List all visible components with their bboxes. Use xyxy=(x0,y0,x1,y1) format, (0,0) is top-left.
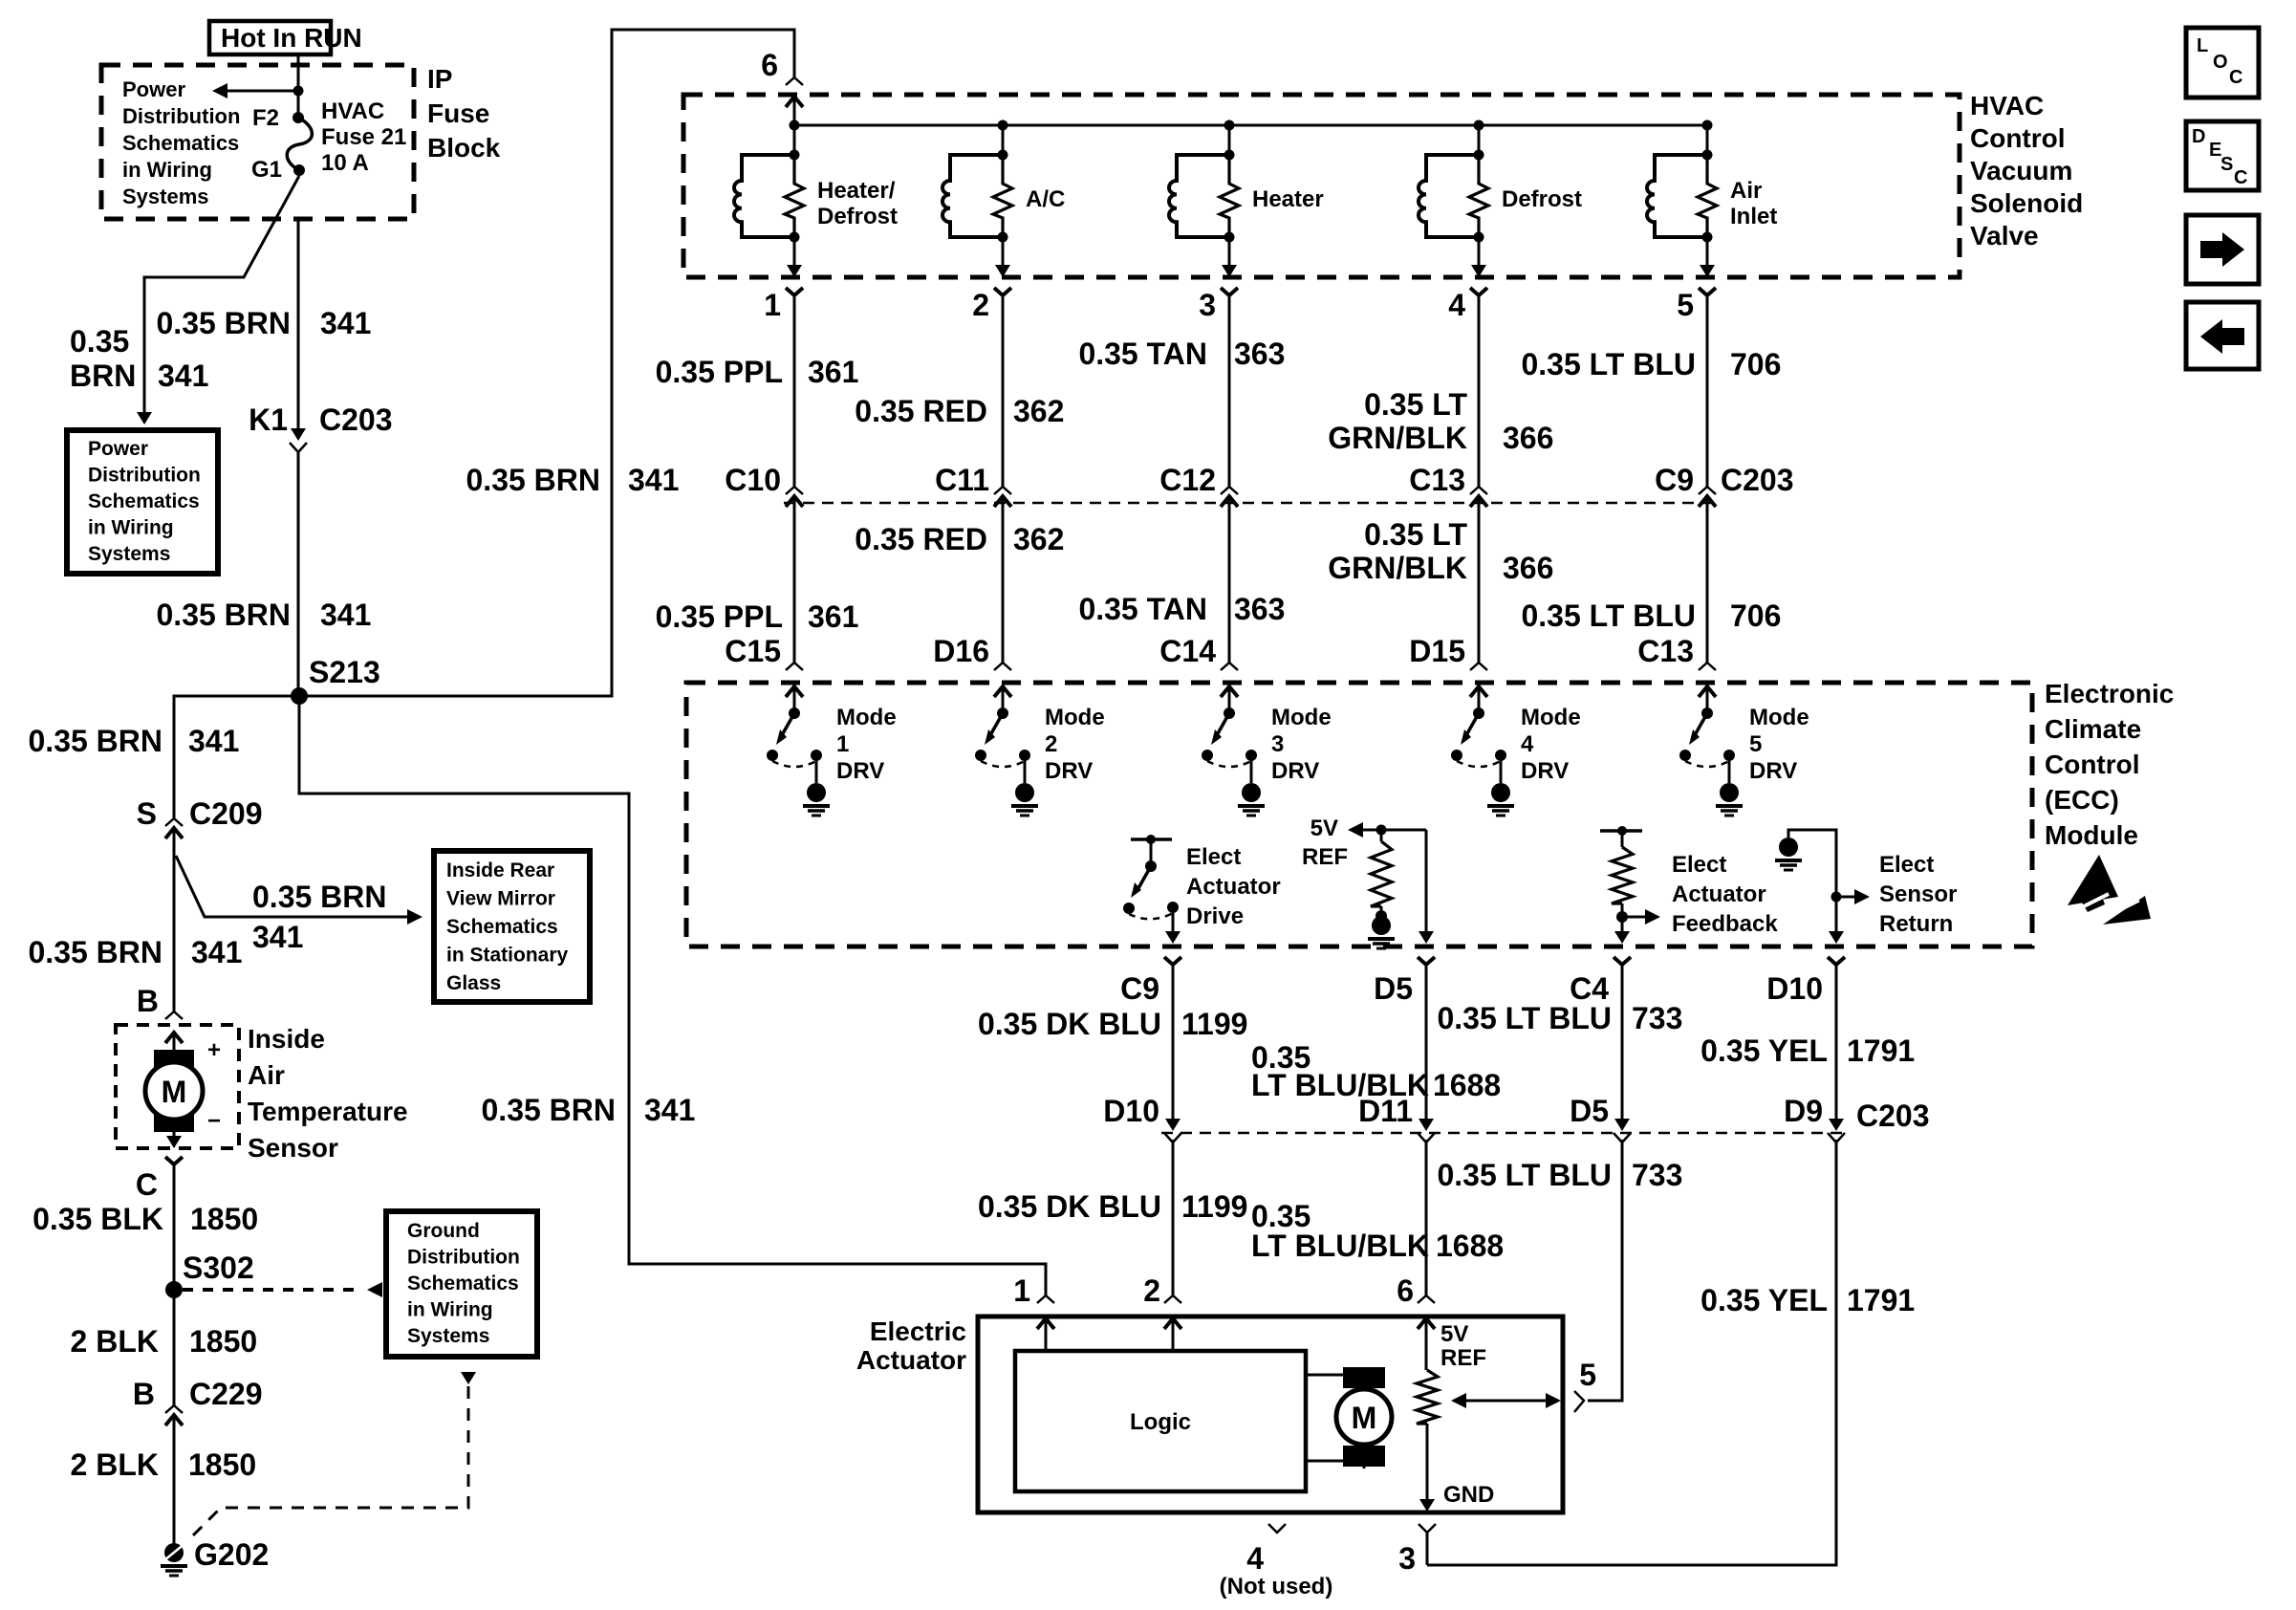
svg-text:733: 733 xyxy=(1632,1001,1682,1035)
svg-text:in Wiring: in Wiring xyxy=(407,1299,493,1321)
connector C229 terminal B xyxy=(165,1405,183,1413)
svg-text:0.35 LT BLU: 0.35 LT BLU xyxy=(1521,598,1696,633)
svg-text:Mode: Mode xyxy=(836,705,897,730)
svg-text:Schematics: Schematics xyxy=(446,916,558,938)
svg-text:Elect: Elect xyxy=(1186,844,1241,870)
mode 3 switch arm xyxy=(1217,713,1229,735)
solenoid 5 resistor xyxy=(1698,157,1717,237)
svg-text:DRV: DRV xyxy=(1271,758,1319,784)
elect actuator drive fixed contact dot xyxy=(1167,902,1179,913)
svg-text:0.35 PPL: 0.35 PPL xyxy=(656,599,783,634)
connector C203 C12 xyxy=(1221,487,1238,494)
solenoid 3 exit wire xyxy=(1228,237,1231,266)
actuator motor brush bottom xyxy=(1343,1446,1385,1467)
svg-text:C: C xyxy=(2229,67,2242,88)
svg-text:0.35 BRN: 0.35 BRN xyxy=(157,306,292,340)
svg-text:4: 4 xyxy=(1521,731,1534,757)
solenoid 1 resistor xyxy=(785,157,804,237)
solenoid 5 wire bus to coil xyxy=(1706,125,1709,155)
reference box Inside Rear View Mirror Schematics xyxy=(434,851,590,1002)
wire sensor to S302 xyxy=(173,1164,176,1290)
mode 5 switch pivot dot xyxy=(1701,707,1713,719)
wire drive to C9 xyxy=(1172,907,1175,932)
svg-text:341: 341 xyxy=(628,463,679,497)
5V REF ground xyxy=(1372,916,1391,935)
mode 3 entry arrow xyxy=(1221,686,1238,697)
svg-text:Defrost: Defrost xyxy=(817,204,898,229)
actuator pin 2 entry arrow xyxy=(1164,1318,1181,1329)
solenoid 4 exit wire xyxy=(1478,237,1481,266)
svg-text:Mode: Mode xyxy=(1521,705,1581,730)
svg-text:Vacuum: Vacuum xyxy=(1970,156,2072,185)
wire feedback to C4 xyxy=(1621,903,1624,932)
connector C203 terminal K1 xyxy=(291,428,306,441)
svg-text:B: B xyxy=(133,1377,155,1411)
svg-text:D: D xyxy=(2192,126,2205,147)
elect actuator drive arm xyxy=(1138,866,1151,888)
svg-text:0.35 BRN: 0.35 BRN xyxy=(29,724,163,758)
sensor return arrow into box xyxy=(1829,931,1844,944)
wire pin 3 to C203 xyxy=(1228,295,1231,487)
mode 1 open contact dot xyxy=(767,750,778,761)
junction dot xyxy=(293,86,304,97)
svg-text:Fuse: Fuse xyxy=(427,98,489,128)
wiper arrow xyxy=(1466,1400,1548,1403)
connector line C203 lower row xyxy=(1161,1132,1845,1135)
wire S213 to C209 xyxy=(174,696,299,818)
wire C11 to ECC xyxy=(1002,511,1005,663)
actuator motor brush top xyxy=(1343,1367,1385,1388)
solenoid 5 exit arrow xyxy=(1700,265,1715,277)
svg-text:3: 3 xyxy=(1199,288,1216,322)
svg-text:Air: Air xyxy=(248,1060,285,1090)
svg-text:C203: C203 xyxy=(1856,1099,1930,1133)
svg-text:C9: C9 xyxy=(1120,971,1159,1006)
sensor connector female B xyxy=(165,1012,183,1019)
reference box Power Distribution Schematics xyxy=(67,430,218,574)
svg-text:DRV: DRV xyxy=(1045,758,1093,784)
mode 1 ground stem xyxy=(815,755,818,783)
svg-text:Heater/: Heater/ xyxy=(817,178,896,204)
svg-text:Systems: Systems xyxy=(88,543,170,565)
svg-text:0.35 BRN: 0.35 BRN xyxy=(29,935,163,969)
splice S213 dot xyxy=(291,687,308,705)
svg-text:5: 5 xyxy=(1677,288,1694,322)
svg-text:0.35 LT BLU: 0.35 LT BLU xyxy=(1437,1001,1612,1035)
actuator 5V resistor xyxy=(1417,1370,1438,1424)
actuator pin 5 chevron xyxy=(1574,1391,1584,1412)
svg-text:363: 363 xyxy=(1234,337,1285,371)
5V REF resistor xyxy=(1371,841,1392,906)
wire D10 to actuator pin 2 xyxy=(1172,1140,1175,1295)
mode 2 contact arc xyxy=(981,761,1025,767)
solenoid 4 coil xyxy=(1419,155,1479,237)
solenoid 2 top node dot xyxy=(998,150,1008,161)
svg-text:706: 706 xyxy=(1730,598,1781,633)
svg-text:1850: 1850 xyxy=(189,1324,257,1359)
mode 2 fixed contact dot xyxy=(1019,750,1030,761)
svg-text:(Not used): (Not used) xyxy=(1220,1574,1333,1599)
solenoid 2 exit arrow xyxy=(995,265,1010,277)
sensor return elbow xyxy=(1788,830,1836,932)
svg-text:REF: REF xyxy=(1440,1345,1486,1371)
svg-text:C229: C229 xyxy=(189,1377,263,1411)
mode 4 ground xyxy=(1491,783,1510,802)
ECC pin D16 female chevron xyxy=(994,663,1011,670)
mode 2 entry arrow xyxy=(994,686,1011,697)
svg-text:Elect: Elect xyxy=(1879,852,1934,878)
svg-text:0.35 BRN: 0.35 BRN xyxy=(157,598,292,632)
solenoid 2 bus junction dot xyxy=(998,120,1008,131)
actuator motor circle xyxy=(1336,1389,1392,1445)
svg-text:C: C xyxy=(2234,167,2247,188)
wire S213 to pin 6 feed xyxy=(299,30,794,696)
svg-text:0.35 BRN: 0.35 BRN xyxy=(252,880,387,914)
wire pin 4 to C203 xyxy=(1478,295,1481,487)
mode 1 ground xyxy=(807,783,826,802)
svg-text:(ECC): (ECC) xyxy=(2045,785,2119,815)
svg-text:BRN: BRN xyxy=(70,359,136,393)
mode 3 switch pivot dot xyxy=(1224,707,1235,719)
wire D9 to actuator gnd xyxy=(1427,1140,1836,1565)
mode 2 open contact dot xyxy=(975,750,986,761)
svg-text:0.35 LT: 0.35 LT xyxy=(1364,387,1467,422)
solenoid 2 bottom node dot xyxy=(998,232,1008,243)
elect actuator drive contact arc xyxy=(1129,913,1173,919)
svg-text:10 A: 10 A xyxy=(321,150,369,176)
svg-text:Heater: Heater xyxy=(1252,186,1324,212)
svg-text:361: 361 xyxy=(808,599,858,634)
svg-text:GND: GND xyxy=(1443,1482,1494,1508)
ECC exit D10 male chevron xyxy=(1828,957,1845,965)
svg-text:1199: 1199 xyxy=(1181,1007,1247,1041)
5V REF arrow xyxy=(1363,829,1426,832)
wire C229 to G202 xyxy=(173,1430,176,1544)
motor wire top xyxy=(1306,1367,1364,1375)
motor brush bottom xyxy=(154,1115,194,1132)
svg-text:Inside Rear: Inside Rear xyxy=(446,859,554,881)
svg-text:1791: 1791 xyxy=(1847,1283,1915,1317)
svg-text:2: 2 xyxy=(972,288,989,322)
solenoid 1 coil xyxy=(734,155,794,237)
svg-text:4: 4 xyxy=(1448,288,1465,322)
svg-text:Valve: Valve xyxy=(1970,221,2039,250)
wire D11 to actuator pin 6 xyxy=(1425,1140,1428,1295)
svg-text:GRN/BLK: GRN/BLK xyxy=(1328,551,1467,585)
elect actuator drive T bar xyxy=(1131,838,1172,841)
svg-text:362: 362 xyxy=(1013,394,1064,428)
wire pin 3 down xyxy=(1426,1533,1429,1565)
wire C4 down xyxy=(1621,965,1624,1119)
svg-text:HVAC: HVAC xyxy=(1970,91,2044,120)
svg-text:GRN/BLK: GRN/BLK xyxy=(1328,421,1467,455)
svg-text:341: 341 xyxy=(252,920,303,954)
svg-text:0.35 YEL: 0.35 YEL xyxy=(1700,1283,1828,1317)
wire C9 to ECC xyxy=(1706,511,1709,663)
solenoid 3 top node dot xyxy=(1224,150,1235,161)
5V REF junction dot xyxy=(1376,825,1387,836)
svg-text:0.35 PPL: 0.35 PPL xyxy=(656,355,783,389)
svg-text:D10: D10 xyxy=(1766,971,1823,1006)
wire from Hot In RUN to fuse xyxy=(297,54,300,116)
connector C203 C9 xyxy=(1699,487,1716,494)
mode 1 switch pivot dot xyxy=(789,707,800,719)
wire S213 to actuator pin 1 xyxy=(299,696,1046,1295)
svg-text:M: M xyxy=(1352,1401,1377,1435)
solenoid 2 wire bus to coil xyxy=(1002,125,1005,155)
actuator pin 3 chevron xyxy=(1419,1524,1436,1533)
svg-text:1: 1 xyxy=(1013,1273,1030,1308)
svg-text:Systems: Systems xyxy=(122,185,209,208)
mode 3 ground stem xyxy=(1250,755,1253,783)
svg-text:C12: C12 xyxy=(1159,463,1216,497)
ECC exit C9 male chevron xyxy=(1164,957,1181,965)
svg-text:Mode: Mode xyxy=(1749,705,1809,730)
splice S302 dot xyxy=(165,1281,183,1298)
actuator pin 6 entry arrow xyxy=(1418,1318,1435,1329)
svg-text:S302: S302 xyxy=(183,1251,254,1285)
svg-text:5V: 5V xyxy=(1310,816,1338,841)
feedback resistor xyxy=(1621,831,1624,847)
svg-text:362: 362 xyxy=(1013,522,1064,556)
svg-text:Ground: Ground xyxy=(407,1220,480,1242)
svg-text:Return: Return xyxy=(1879,911,1953,937)
solenoid 1 bottom node dot xyxy=(790,232,800,243)
solenoid 4 bottom node dot xyxy=(1474,232,1484,243)
feedback T bar xyxy=(1600,829,1642,833)
svg-text:Mode: Mode xyxy=(1271,705,1332,730)
mode 4 open contact dot xyxy=(1451,750,1462,761)
pin 5 male chevron xyxy=(1699,288,1716,295)
arrowhead to S302 xyxy=(367,1282,382,1297)
wire C13 to ECC xyxy=(1478,511,1481,663)
svg-text:O: O xyxy=(2213,52,2228,73)
ECC pin C15 female chevron xyxy=(786,663,803,670)
svg-text:0.35 LT BLU: 0.35 LT BLU xyxy=(1437,1158,1612,1192)
svg-text:LT BLU/BLK: LT BLU/BLK xyxy=(1251,1229,1429,1263)
svg-text:IP: IP xyxy=(427,64,452,94)
wire 341 to S213 xyxy=(297,452,300,696)
svg-text:C15: C15 xyxy=(725,634,781,668)
sensor return ground xyxy=(1779,838,1798,857)
svg-text:0.35 DK BLU: 0.35 DK BLU xyxy=(978,1007,1161,1041)
svg-text:Logic: Logic xyxy=(1130,1409,1191,1435)
svg-text:C203: C203 xyxy=(1721,463,1794,497)
svg-text:1850: 1850 xyxy=(190,1202,258,1236)
svg-text:Temperature: Temperature xyxy=(248,1097,408,1126)
svg-text:341: 341 xyxy=(320,306,371,340)
svg-text:K1: K1 xyxy=(249,402,288,437)
terminal G1 dot xyxy=(293,164,305,176)
dashed ground path xyxy=(187,1386,468,1541)
feedback junction dot xyxy=(1616,911,1628,923)
svg-text:0.35 BLK: 0.35 BLK xyxy=(32,1202,163,1236)
mode 1 fixed contact dot xyxy=(811,750,822,761)
wire D5 to actuator pin 5 xyxy=(1588,1140,1622,1401)
svg-text:Electronic: Electronic xyxy=(2045,679,2174,708)
mode 5 fixed contact dot xyxy=(1723,750,1735,761)
Inside Air Temperature Sensor dashed box xyxy=(116,1025,239,1148)
connector C203 C10 xyxy=(786,487,803,494)
logic box xyxy=(1015,1351,1306,1491)
motor brush top xyxy=(154,1050,194,1067)
DESC box xyxy=(2186,121,2259,190)
svg-text:1199: 1199 xyxy=(1181,1189,1247,1224)
ground G202 xyxy=(164,1543,184,1562)
svg-text:D9: D9 xyxy=(1784,1094,1823,1128)
actuator pin 1 female xyxy=(1037,1295,1054,1303)
connector female pin 6 xyxy=(786,77,803,85)
mode 5 open contact dot xyxy=(1679,750,1691,761)
svg-text:0.35 RED: 0.35 RED xyxy=(855,522,987,556)
mode 4 entry arrow xyxy=(1470,686,1487,697)
solenoid 4 bus junction dot xyxy=(1474,120,1484,131)
solenoid 1 top node dot xyxy=(790,150,800,161)
mode 5 switch arm xyxy=(1695,713,1707,735)
svg-text:2 BLK: 2 BLK xyxy=(71,1447,159,1482)
connector C203 D10 xyxy=(1165,1119,1180,1131)
svg-text:341: 341 xyxy=(158,359,208,393)
pin 3 male chevron xyxy=(1221,288,1238,295)
svg-text:D16: D16 xyxy=(933,634,989,668)
solenoid 1 exit arrow xyxy=(787,265,802,277)
svg-text:2: 2 xyxy=(1143,1273,1160,1308)
svg-text:366: 366 xyxy=(1503,551,1553,585)
svg-text:Defrost: Defrost xyxy=(1502,186,1582,212)
svg-text:0.35 TAN: 0.35 TAN xyxy=(1078,337,1207,371)
svg-text:DRV: DRV xyxy=(836,758,884,784)
solenoid 3 resistor xyxy=(1220,157,1239,237)
mode 4 switch pivot dot xyxy=(1473,707,1484,719)
svg-text:341: 341 xyxy=(191,935,242,969)
mode 5 ground stem xyxy=(1728,755,1731,783)
svg-text:6: 6 xyxy=(761,48,778,82)
svg-text:Module: Module xyxy=(2045,820,2138,850)
sensor entry arrow xyxy=(165,1033,183,1043)
svg-text:Block: Block xyxy=(427,133,501,163)
svg-text:C203: C203 xyxy=(319,402,393,437)
svg-text:Fuse 21: Fuse 21 xyxy=(321,124,406,150)
mode 3 ground xyxy=(1242,783,1261,802)
svg-text:Systems: Systems xyxy=(407,1325,489,1347)
actuator pin 1 entry arrow xyxy=(1037,1318,1054,1329)
pin 1 male chevron xyxy=(786,288,803,295)
HVAC Control Vacuum Solenoid Valve dashed box xyxy=(683,95,1960,277)
back arrow box xyxy=(2186,302,2259,369)
solenoid 5 coil xyxy=(1647,155,1707,237)
svg-text:Actuator: Actuator xyxy=(1186,874,1281,900)
mode 3 open contact dot xyxy=(1202,750,1213,761)
svg-text:0.35 BRN: 0.35 BRN xyxy=(482,1093,617,1127)
svg-text:363: 363 xyxy=(1234,592,1285,626)
wire branch to mirror schematics xyxy=(176,856,418,917)
svg-text:Sensor: Sensor xyxy=(248,1133,338,1163)
connector C209 terminal S xyxy=(165,818,183,826)
svg-text:REF: REF xyxy=(1302,844,1348,870)
wire D10 down xyxy=(1835,965,1838,1119)
dashed line S302 to ground box xyxy=(183,1288,363,1292)
svg-text:D15: D15 xyxy=(1409,634,1465,668)
mode 4 fixed contact dot xyxy=(1495,750,1506,761)
solenoid 4 exit arrow xyxy=(1471,265,1486,277)
fuse F21 element xyxy=(287,118,312,170)
svg-text:Schematics: Schematics xyxy=(122,131,239,155)
svg-text:0.35 LT BLU: 0.35 LT BLU xyxy=(1521,347,1696,381)
mode 4 ground stem xyxy=(1500,755,1503,783)
elect actuator drive open contact dot xyxy=(1123,903,1135,914)
svg-text:G1: G1 xyxy=(251,157,282,183)
svg-text:B: B xyxy=(137,984,159,1018)
svg-text:0.35: 0.35 xyxy=(70,324,129,359)
svg-text:Drive: Drive xyxy=(1186,903,1244,929)
svg-text:C14: C14 xyxy=(1159,634,1216,668)
svg-text:0.35 TAN: 0.35 TAN xyxy=(1078,592,1207,626)
svg-text:5: 5 xyxy=(1579,1358,1596,1392)
sensor exit arrow xyxy=(173,1132,176,1137)
actuator resistor to gnd xyxy=(1426,1424,1429,1499)
svg-text:D10: D10 xyxy=(1103,1094,1159,1128)
svg-text:Schematics: Schematics xyxy=(88,490,200,512)
elect actuator drive pivot dot xyxy=(1145,860,1157,872)
wire 341 from fuse block xyxy=(297,221,300,428)
ECC exit C4 male chevron xyxy=(1614,957,1631,965)
svg-text:3: 3 xyxy=(1271,731,1284,757)
svg-text:DRV: DRV xyxy=(1749,758,1797,784)
solenoid 5 bottom node dot xyxy=(1702,232,1713,243)
arrowhead to mirror box xyxy=(407,909,422,925)
svg-text:in Stationary: in Stationary xyxy=(446,945,569,967)
mode 2 switch pivot dot xyxy=(997,707,1008,719)
svg-text:Hot In RUN: Hot In RUN xyxy=(221,23,362,53)
svg-text:Elect: Elect xyxy=(1672,852,1726,878)
svg-text:Mode: Mode xyxy=(1045,705,1105,730)
pin 2 male chevron xyxy=(994,288,1011,295)
svg-text:341: 341 xyxy=(188,724,239,758)
svg-text:HVAC: HVAC xyxy=(321,98,384,124)
wire C10 to ECC xyxy=(793,511,796,663)
ECC exit D5 male chevron xyxy=(1418,957,1435,965)
svg-text:F2: F2 xyxy=(252,105,279,131)
arrow into Power Distribution box xyxy=(137,412,152,424)
svg-text:1688: 1688 xyxy=(1433,1068,1501,1102)
reference box Ground Distribution Schematics xyxy=(386,1211,537,1357)
5V REF resistor stem xyxy=(1380,830,1383,841)
mode 4 contact arc xyxy=(1457,761,1501,767)
mode 1 contact arc xyxy=(772,761,816,767)
svg-text:Control: Control xyxy=(1970,123,2066,153)
terminal F2 dot xyxy=(292,112,304,123)
svg-text:Inlet: Inlet xyxy=(1730,204,1777,229)
svg-text:Climate: Climate xyxy=(2045,714,2141,744)
svg-text:Sensor: Sensor xyxy=(1879,881,1957,907)
svg-text:733: 733 xyxy=(1632,1158,1682,1192)
svg-text:Control: Control xyxy=(2045,750,2140,779)
svg-text:Distribution: Distribution xyxy=(88,465,201,487)
connector C203 C13 xyxy=(1470,487,1487,494)
5V REF ground dot xyxy=(1375,910,1387,922)
solenoid 1 bus junction dot xyxy=(790,120,800,131)
HVAC bus wire xyxy=(794,124,1707,127)
svg-text:Inside: Inside xyxy=(248,1024,325,1054)
svg-text:C: C xyxy=(136,1167,158,1202)
wire 5V REF to D5 xyxy=(1425,830,1428,932)
actuator pin 2 female xyxy=(1164,1295,1181,1303)
mode 5 contact arc xyxy=(1685,761,1729,767)
svg-text:1791: 1791 xyxy=(1847,1033,1915,1068)
svg-text:D5: D5 xyxy=(1570,1094,1609,1128)
solenoid 4 wire bus to coil xyxy=(1478,125,1481,155)
svg-text:Power: Power xyxy=(122,77,185,101)
